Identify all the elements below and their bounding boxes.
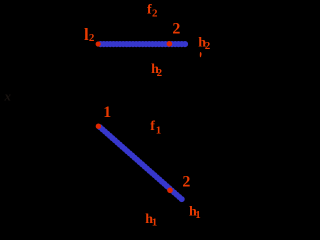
node 1 endpoint dot	[96, 124, 101, 129]
wire: line l2 (frontal projection, horizontal dotted blue)	[101, 41, 187, 47]
label h1 (bottom)	[145, 212, 157, 229]
label h1 (right)	[189, 204, 201, 221]
label h2 (right)	[198, 35, 211, 52]
svg-text:1: 1	[103, 104, 111, 121]
node l2 endpoint dot	[96, 41, 101, 46]
svg-text:1: 1	[152, 217, 158, 229]
svg-text:2: 2	[157, 67, 163, 79]
svg-text:2: 2	[205, 40, 211, 52]
label f2	[147, 3, 158, 20]
svg-text:1: 1	[156, 125, 162, 137]
label l2	[84, 25, 95, 44]
svg-text:f: f	[150, 119, 155, 134]
svg-text:x: x	[4, 89, 12, 104]
label f1	[150, 119, 161, 136]
svg-text:2: 2	[152, 7, 158, 19]
apostrophe under h2	[200, 52, 202, 57]
svg-text:2: 2	[172, 21, 180, 38]
node 2 on l1 dot	[167, 188, 173, 194]
svg-text:1: 1	[195, 209, 201, 221]
svg-text:2: 2	[89, 32, 95, 44]
wire: line l1 (horizontal projection, diagonal dotted blue)	[100, 127, 183, 200]
svg-text:2: 2	[182, 174, 190, 191]
label h2 (below line)	[151, 62, 163, 79]
node 2 on l2 dot	[167, 41, 173, 47]
